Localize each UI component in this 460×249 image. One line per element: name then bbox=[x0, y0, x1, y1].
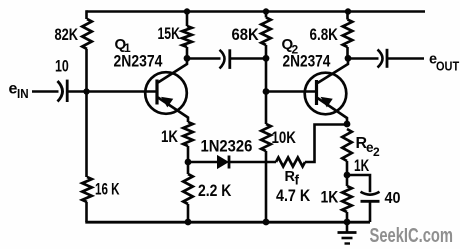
svg-text:f: f bbox=[295, 172, 300, 187]
svg-text:2: 2 bbox=[373, 145, 380, 159]
wire: 68K column down through nodes bbox=[265, 12, 268, 223]
svg-text:82K: 82K bbox=[55, 26, 79, 44]
junction: Q1 emitter feedback node bbox=[185, 159, 192, 166]
svg-text:68K: 68K bbox=[232, 26, 259, 44]
capacitor 10 (input coupling) bbox=[58, 81, 63, 102]
junction: 10K column bottom on rail bbox=[263, 219, 270, 226]
svg-text:1N2326: 1N2326 bbox=[201, 138, 253, 156]
resistor 16K bbox=[82, 177, 92, 202]
svg-text:16 K: 16 K bbox=[95, 181, 120, 199]
wire: Q2 base wire bbox=[266, 90, 317, 93]
svg-text:40: 40 bbox=[385, 190, 401, 207]
wire: left column (82K/16K branch) bbox=[85, 10, 88, 222]
wire: top supply rail bbox=[87, 10, 426, 13]
svg-text:6.8K: 6.8K bbox=[310, 26, 338, 44]
resistor 82K bbox=[82, 19, 92, 49]
wire: 15K column stubs bbox=[186, 12, 189, 59]
wire: interstage cap to 68K column bbox=[231, 57, 266, 60]
resistor 68K bbox=[261, 18, 271, 46]
resistor 1K (Q1 emitter) bbox=[183, 122, 193, 146]
svg-text:2N2374: 2N2374 bbox=[114, 53, 164, 71]
capacitor: output coupling bbox=[378, 50, 383, 68]
wire: output lead bbox=[388, 57, 424, 60]
junction: input bias node bbox=[83, 88, 89, 94]
svg-text:1K: 1K bbox=[354, 157, 369, 175]
junction: Q2 base tap bbox=[263, 88, 270, 95]
svg-text:IN: IN bbox=[17, 86, 29, 101]
transistor Q1 circle bbox=[145, 72, 187, 114]
wire: 1K to junction bbox=[187, 146, 190, 162]
capacitor: interstage coupling bbox=[220, 50, 225, 69]
junction: Q2 emitter node bbox=[344, 121, 351, 128]
junction: 2.2K bottom on rail bbox=[185, 219, 192, 226]
svg-text:15K: 15K bbox=[158, 25, 180, 43]
resistor 10K bbox=[261, 124, 271, 151]
resistor Rf 4.7K (feedback) bbox=[276, 158, 305, 167]
wire: input lead bbox=[32, 90, 59, 93]
wire: emitter node to diode anode bbox=[188, 161, 218, 164]
junction: 68K top on rail bbox=[263, 8, 269, 14]
transistor Q2 emitter lead bbox=[318, 98, 348, 124]
resistor Re2 1K bbox=[342, 129, 352, 161]
svg-text:1K: 1K bbox=[321, 188, 339, 206]
junction: interstage cap / 68K node bbox=[263, 55, 270, 62]
transistor Q1 collector lead bbox=[158, 58, 187, 83]
transistor Q1 emitter arrow (PNP) bbox=[162, 98, 172, 107]
wire: bottom ground rail bbox=[85, 221, 370, 224]
svg-text:10K: 10K bbox=[272, 129, 296, 147]
wire: Re2 to bottom node bbox=[346, 161, 349, 175]
transistor Q2 collector lead bbox=[318, 58, 349, 83]
capacitor 40 (emitter bypass) bbox=[361, 192, 380, 195]
transistor Q2 circle bbox=[305, 73, 347, 115]
wire: diode cathode to 10K bottom node bbox=[229, 161, 276, 164]
resistor 1K (Q2 emitter bypass) bbox=[342, 186, 352, 212]
diode 1N2326 bbox=[218, 156, 229, 168]
wire: 2.2K stubs bbox=[187, 162, 190, 222]
svg-text:4.7 K: 4.7 K bbox=[276, 187, 310, 205]
svg-text:2.2 K: 2.2 K bbox=[198, 182, 231, 200]
junction: ground node on rail bbox=[344, 219, 351, 226]
wire: 6.8K column stubs bbox=[346, 12, 349, 59]
svg-text:SeekIC.com: SeekIC.com bbox=[370, 225, 454, 247]
transistor Q2 emitter arrow (PNP) bbox=[322, 98, 332, 107]
resistor 6.8K bbox=[343, 20, 353, 48]
wire: Rf right end up to Q2 emitter node bbox=[305, 125, 347, 163]
junction: 6.8K top on rail bbox=[345, 8, 351, 14]
svg-text:2N2374: 2N2374 bbox=[283, 53, 332, 71]
transistor Q2 base bar bbox=[315, 80, 318, 105]
svg-text:1K: 1K bbox=[161, 128, 178, 146]
svg-text:10: 10 bbox=[55, 57, 69, 75]
junction: Re2 bottom node bbox=[344, 172, 351, 179]
ground symbol bbox=[338, 222, 357, 244]
junction: Q1 collector node bbox=[184, 55, 191, 62]
wire: input cap to Q1 base / bias node bbox=[69, 90, 158, 93]
junction: 15K top on rail bbox=[184, 8, 190, 14]
resistor 15K bbox=[182, 26, 192, 47]
wire: node to capacitor 40 branch bbox=[347, 175, 370, 192]
resistor 2.2K bbox=[183, 174, 193, 204]
wire: 1K bypass stubs bbox=[346, 175, 349, 222]
svg-text:OUT: OUT bbox=[436, 58, 459, 73]
wire: Q2 collector to output cap bbox=[348, 57, 379, 60]
junction: Q2 collector node bbox=[345, 55, 352, 62]
transistor Q1 base bar bbox=[155, 80, 158, 105]
wire: Q1 collector to interstage cap bbox=[187, 57, 221, 60]
transistor Q1 emitter lead bbox=[158, 98, 188, 123]
